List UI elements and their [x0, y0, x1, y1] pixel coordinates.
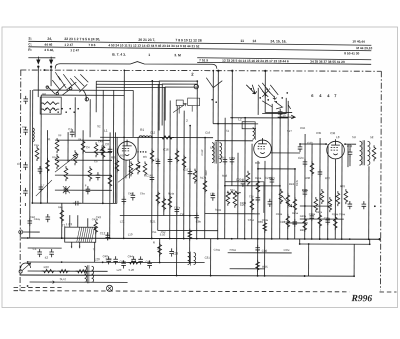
- capacitor C41: [113, 256, 118, 264]
- svg-text:R24v: R24v: [295, 179, 299, 186]
- coil box B6: [40, 97, 61, 114]
- svg-text:C14: C14: [146, 173, 152, 177]
- chassis border bottom outer: [14, 286, 62, 288]
- wire v29: [189, 126, 191, 263]
- wire v48: [319, 138, 321, 239]
- svg-text:C19: C19: [218, 156, 224, 160]
- rule under row T: [197, 62, 371, 64]
- resistor mid extra1: [150, 148, 154, 163]
- svg-text:C12: C12: [100, 231, 106, 235]
- svg-text:5A: 5A: [210, 146, 214, 150]
- svg-text:R39a: R39a: [262, 218, 269, 222]
- wire S2 corner: [265, 71, 292, 113]
- capacitor C14: [150, 174, 155, 182]
- wire h4: [96, 83, 162, 85]
- switch S2 frame: [262, 98, 286, 114]
- wire h0: [33, 89, 133, 91]
- svg-text:C43a: C43a: [92, 217, 99, 221]
- svg-text:L20: L20: [117, 268, 122, 272]
- wire v27: [369, 239, 371, 244]
- volume arrow on wire: [50, 281, 55, 284]
- wire v5: [61, 203, 63, 238]
- wire v23: [257, 239, 259, 276]
- tube V3 (output): [327, 139, 345, 159]
- wave band switch S1 contacts: [58, 76, 66, 88]
- wire v24: [308, 244, 310, 276]
- tube V2 (IF amp): [254, 138, 272, 158]
- wire h26: [228, 252, 292, 254]
- svg-text:C23: C23: [307, 141, 313, 145]
- box 2 inner diagonal: [173, 104, 186, 113]
- wire v12: [109, 132, 111, 238]
- switch S1 wiper arc: [83, 90, 86, 101]
- rule under row C: [28, 47, 371, 51]
- capacitor C15: [278, 109, 283, 117]
- variable capacitor arrow: [36, 180, 52, 196]
- B+ bus: [20, 238, 380, 239]
- wire h27: [28, 261, 205, 264]
- svg-text:R5a: R5a: [52, 155, 57, 159]
- wire v17: [151, 81, 154, 238]
- capacitor C52: [23, 127, 28, 135]
- svg-text:C17a: C17a: [174, 206, 181, 210]
- speaker: [106, 285, 112, 291]
- switch S2 contact dots: [211, 99, 213, 101]
- resistor left low1: [60, 208, 64, 223]
- svg-text:R996: R996: [350, 294, 372, 304]
- junction dot cluster: [27, 69, 371, 288]
- svg-text:1 2 47: 1 2 47: [70, 48, 79, 52]
- variable capacitor arrow left gang: [55, 154, 78, 172]
- capacitor C51: [23, 96, 28, 104]
- IF transformer box L2: [242, 122, 255, 129]
- svg-text:44 46: 44 46: [44, 43, 52, 47]
- wire h28: [230, 268, 265, 270]
- svg-text:C6a: C6a: [140, 191, 145, 195]
- T1 top lead 3: [87, 218, 89, 227]
- wire v9: [89, 99, 91, 137]
- svg-text:5U: 5U: [352, 135, 356, 139]
- wire v32: [212, 71, 214, 124]
- wire v43: [279, 118, 281, 239]
- trimmer C5 plates: [64, 186, 69, 194]
- svg-text:C18: C18: [210, 192, 215, 196]
- capacitor C8: [108, 146, 113, 154]
- svg-text:C2a: C2a: [34, 143, 39, 147]
- svg-text:C1c: C1c: [155, 157, 160, 161]
- wire h11: [345, 143, 356, 145]
- svg-text:R3: R3: [111, 155, 115, 159]
- IF transformer bottom: [188, 252, 196, 266]
- C18 top lead: [349, 144, 351, 150]
- rule under row S: [28, 41, 371, 45]
- resistor R16: [162, 196, 166, 211]
- resistor R28: [320, 189, 324, 204]
- extra junction dots: [27, 80, 376, 278]
- mains transformer T1 box: [65, 227, 96, 242]
- svg-text:5€: 5€: [370, 135, 374, 139]
- capacitor bottom l2: [147, 260, 152, 268]
- box 2 outline outer: [159, 81, 197, 131]
- tube V1 neck leads: [126, 160, 130, 179]
- resistor mid extra3: [188, 229, 192, 241]
- pickup lead: [23, 231, 40, 233]
- svg-text:R3: R3: [143, 155, 147, 159]
- switch S1 contact ring 4: [46, 86, 48, 88]
- svg-text:L1: L1: [104, 129, 108, 133]
- wire v0: [31, 90, 33, 203]
- resistor R9: [101, 144, 105, 159]
- rule above row T: [197, 58, 371, 60]
- wire mid link: [288, 222, 308, 224]
- svg-text:8 50 41 30: 8 50 41 30: [344, 51, 359, 55]
- box 2 inner coil rect A: [176, 100, 183, 106]
- svg-text:SU-2: SU-2: [60, 277, 67, 281]
- svg-text:1 2 3: 1 2 3: [66, 222, 73, 226]
- svg-text:R14a: R14a: [168, 192, 175, 196]
- volume potentiometer: [21, 263, 31, 268]
- svg-text:R23a: R23a: [276, 212, 283, 216]
- svg-text:10 40,44: 10 40,44: [352, 40, 365, 44]
- stub: [24, 203, 26, 206]
- resistor left extra1: [35, 146, 39, 161]
- svg-text:R19a: R19a: [215, 208, 222, 212]
- resistor R27: [314, 197, 318, 212]
- capacitor C25: [318, 169, 323, 177]
- svg-text:C45a: C45a: [120, 259, 127, 263]
- wire h17: [225, 185, 280, 187]
- svg-text:C4a: C4a: [98, 139, 103, 143]
- speaker transformer L20 L21: [85, 265, 94, 283]
- svg-text:S4: S4: [78, 137, 82, 141]
- chassis border left: [19, 70, 22, 291]
- capacitor left low1: [45, 214, 50, 222]
- svg-text:R1: R1: [140, 128, 144, 132]
- junction on chassis line 2: [231, 70, 233, 72]
- shield box center: [225, 182, 264, 213]
- svg-text:C6: C6: [180, 213, 184, 217]
- svg-text:R36c: R36c: [284, 248, 291, 252]
- wire v13: [116, 137, 118, 203]
- capacitor mid extra9: [292, 219, 297, 227]
- resistor R29h: [227, 191, 241, 194]
- capacitor C21: [256, 195, 261, 203]
- resistor R25: [293, 197, 297, 212]
- resistor R8: [73, 150, 77, 165]
- box 2 outline inner: [165, 87, 197, 121]
- resistor R11: [175, 149, 179, 164]
- capacitor C20: [241, 179, 246, 187]
- wire h23: [158, 229, 218, 231]
- wire h2: [41, 94, 124, 96]
- wire v2: [46, 130, 48, 203]
- resistor left extra2: [46, 158, 50, 173]
- svg-text:L8: L8: [336, 135, 340, 139]
- svg-text:R37: R37: [325, 176, 331, 180]
- capacitor C40: [106, 256, 111, 264]
- wire v47: [311, 144, 313, 239]
- svg-text:R24: R24: [289, 182, 295, 186]
- wire v34: [224, 118, 226, 239]
- svg-text:24, 15, 16,: 24, 15, 16,: [270, 39, 286, 43]
- svg-text:C11P: C11P: [200, 149, 204, 156]
- svg-text:C16: C16: [163, 147, 169, 151]
- wire h20: [32, 202, 116, 204]
- resistor mid extra8: [263, 221, 267, 233]
- capacitor left extra2: [96, 172, 101, 180]
- svg-text:C4b: C4b: [128, 191, 133, 195]
- wire left box right side 2: [114, 132, 116, 203]
- svg-text:S2: S2: [97, 124, 101, 128]
- trimmer C6: [86, 186, 91, 194]
- box 2 outline mid: [162, 84, 197, 126]
- wire v15: [132, 90, 134, 137]
- svg-text:B. 7. 4 3.: B. 7. 4 3.: [112, 53, 126, 57]
- pickup terminal: [19, 230, 23, 234]
- resistor R3: [115, 158, 119, 173]
- capacitor C26: [348, 201, 353, 209]
- resistor R12: [136, 159, 140, 174]
- svg-text:22 23 1 2 7 9 5 6 24 30,: 22 23 1 2 7 9 5 6 24 30,: [64, 37, 100, 41]
- svg-text:C12: C12: [150, 130, 156, 134]
- trimmer C5: [63, 186, 70, 193]
- svg-text:24,: 24,: [47, 37, 52, 41]
- svg-text:C33a: C33a: [309, 212, 316, 216]
- svg-text:R27a: R27a: [316, 210, 323, 214]
- tube V1 (mixer): [118, 140, 137, 161]
- svg-text:R29a: R29a: [332, 212, 339, 216]
- resistor R31: [336, 191, 340, 206]
- capacitor C30: [255, 245, 260, 253]
- T1 top lead 2: [77, 215, 79, 227]
- wire v52: [347, 144, 349, 167]
- wire v39: [257, 88, 259, 115]
- output transformer T2: [359, 140, 369, 165]
- resistor R29: [328, 197, 332, 212]
- wire v7: [74, 97, 76, 137]
- svg-text:L21: L21: [120, 219, 125, 223]
- capacitor left extra1: [39, 184, 44, 192]
- svg-text:C8: C8: [105, 142, 109, 146]
- wire right link: [300, 218, 344, 220]
- wire h3: [96, 80, 159, 82]
- resistor R24: [286, 193, 290, 208]
- svg-text:M 44 29,10: M 44 29,10: [356, 46, 372, 50]
- wire h1: [55, 139, 110, 141]
- wire v30: [196, 81, 199, 238]
- rotated labels column: [200, 149, 299, 186]
- svg-text:R40a: R40a: [300, 214, 307, 218]
- switch S1 contact ring 3: [70, 87, 72, 89]
- capacitor C23b: [169, 248, 174, 256]
- switch S1 contact dots: [45, 108, 47, 110]
- capacitor C1: [37, 249, 42, 257]
- svg-text:C36: C36: [330, 131, 336, 135]
- coil L1: [139, 136, 152, 138]
- IF transformer T3 windings: [212, 142, 222, 164]
- capacitor mid extra5: [230, 157, 235, 165]
- coil L3 winding: [41, 102, 59, 105]
- svg-text:7 8 9 10 11 12 28: 7 8 9 10 11 12 28: [175, 38, 201, 42]
- wire h12: [85, 151, 112, 153]
- wire v37: [244, 118, 246, 239]
- resistor right extra2: [318, 213, 322, 228]
- wire h10: [300, 143, 326, 145]
- wire v6: [67, 132, 69, 162]
- capacitor C3: [38, 166, 43, 174]
- resistor R5: [81, 139, 85, 154]
- capacitor C12 lead: [107, 232, 109, 240]
- wire h22: [205, 213, 260, 215]
- capacitor under V1: [122, 196, 127, 204]
- svg-text:R31: R31: [340, 184, 346, 188]
- capacitor mid extra3: [194, 213, 199, 221]
- wire h18: [55, 189, 112, 191]
- resistor S20: [58, 270, 70, 273]
- wire h9: [215, 140, 253, 142]
- wire v14: [123, 70, 126, 238]
- wire v31: [204, 138, 206, 239]
- resistor R33: [372, 145, 376, 161]
- capacitor C18: [348, 149, 353, 157]
- resistor R23: [279, 189, 283, 204]
- svg-text:51?: 51?: [287, 129, 292, 133]
- svg-text:R36: R36: [305, 176, 311, 180]
- resistor R19: [233, 193, 237, 208]
- switch arrow: [246, 85, 257, 94]
- svg-text:C24: C24: [298, 156, 304, 160]
- capacitor under V1b: [131, 192, 136, 200]
- wire v45: [294, 169, 296, 239]
- brace: [55, 61, 217, 69]
- capacitor C45: [138, 256, 143, 264]
- svg-text:11: 11: [240, 39, 244, 43]
- wire h25: [28, 247, 62, 249]
- svg-text:20 21 23 7,: 20 21 23 7,: [138, 38, 155, 42]
- junction on chassis line 3: [264, 70, 266, 72]
- rule segment left: [28, 57, 55, 59]
- svg-text:R34a: R34a: [230, 248, 237, 252]
- resistor R13: [143, 161, 147, 176]
- wire v51: [341, 144, 343, 239]
- capacitor C53: [23, 162, 28, 170]
- wire left box right side: [112, 90, 114, 203]
- resistor left low2: [94, 220, 98, 234]
- svg-text:S:: S:: [28, 37, 31, 41]
- T1 lead 7: [94, 242, 96, 262]
- svg-text:C35a: C35a: [324, 216, 331, 220]
- wire h21: [120, 214, 198, 216]
- wire h29: [30, 281, 128, 283]
- chassis border bottom inner: [14, 291, 350, 292]
- wire v11: [102, 90, 104, 203]
- switch S1 contact ring: [85, 98, 88, 101]
- svg-text:C5: C5: [94, 159, 98, 163]
- capacitor mid extra2: [175, 206, 180, 214]
- wire h19: [300, 205, 332, 207]
- wire bottom left link: [28, 270, 108, 272]
- T1 lead 4: [71, 242, 73, 248]
- svg-text:C51: C51: [152, 230, 157, 234]
- wire v41: [264, 161, 266, 276]
- capacitor C44: [131, 256, 136, 264]
- resistor R32: [344, 189, 348, 204]
- svg-text:51: 51: [226, 129, 230, 133]
- svg-text:1: 1: [148, 53, 150, 57]
- wire drop mid: [159, 238, 161, 262]
- wire h16: [55, 174, 112, 176]
- capacitor C16: [168, 156, 173, 164]
- wire h24: [300, 243, 370, 245]
- svg-text:R2a: R2a: [230, 188, 235, 192]
- resistor R10: [129, 161, 133, 176]
- resistor R7: [88, 166, 92, 181]
- svg-text:14: 14: [252, 39, 256, 43]
- capacitor mid extra7: [270, 177, 275, 185]
- wire left outer: [29, 90, 32, 238]
- resistor left extra4: [108, 173, 112, 188]
- svg-text:C16: C16: [249, 194, 254, 198]
- svg-text:C30a: C30a: [214, 248, 221, 252]
- svg-text:C31a: C31a: [248, 218, 255, 222]
- capacitor right extra1: [309, 213, 314, 221]
- resistor R4: [55, 154, 59, 169]
- coil L2 winding: [253, 128, 256, 140]
- wire v49: [327, 144, 329, 239]
- chassis border right: [380, 71, 383, 290]
- svg-text:C31: C31: [205, 256, 211, 260]
- svg-text:5.10: 5.10: [160, 232, 166, 236]
- wire h8: [100, 136, 213, 138]
- ground return bus: [20, 275, 354, 276]
- wire S2 arrow line: [278, 115, 296, 119]
- switch S2 blades: [206, 78, 213, 88]
- capacitor left low2: [27, 218, 32, 226]
- svg-text:C19a: C19a: [229, 156, 236, 160]
- svg-text:C23: C23: [173, 252, 179, 256]
- antenna coil L5: [33, 128, 35, 142]
- resistor mid extra4: [203, 179, 207, 194]
- grid cap dots row: [137, 151, 146, 153]
- svg-text:C15: C15: [22, 125, 27, 129]
- wire v28: [183, 111, 185, 239]
- svg-text:C1b: C1b: [300, 126, 306, 130]
- capacitor C15c: [100, 147, 105, 155]
- svg-text:411P: 411P: [204, 170, 208, 176]
- wire h6: [230, 117, 288, 119]
- resistor R14: [156, 190, 160, 205]
- svg-text:C35: C35: [316, 131, 322, 135]
- resistor R18: [226, 191, 230, 206]
- wire v21: [176, 106, 179, 276]
- wire v1: [40, 95, 42, 203]
- svg-text:C17: C17: [183, 168, 189, 172]
- svg-text:B6: B6: [42, 92, 46, 96]
- wire v26: [299, 239, 301, 244]
- svg-text:42: 42: [45, 256, 49, 260]
- capacitor C22: [268, 199, 273, 207]
- diagonal arrow center: [283, 197, 292, 207]
- antenna terminal arrow A2: [50, 57, 53, 64]
- trimmer C9 ring: [194, 84, 198, 88]
- wire v4: [50, 67, 52, 86]
- wire v19: [163, 87, 165, 215]
- svg-text:R1b: R1b: [255, 161, 261, 165]
- svg-text:L20: L20: [95, 257, 100, 261]
- wire v33: [217, 71, 220, 239]
- junction on chassis line: [217, 70, 219, 72]
- S2 inner blades: [273, 96, 291, 109]
